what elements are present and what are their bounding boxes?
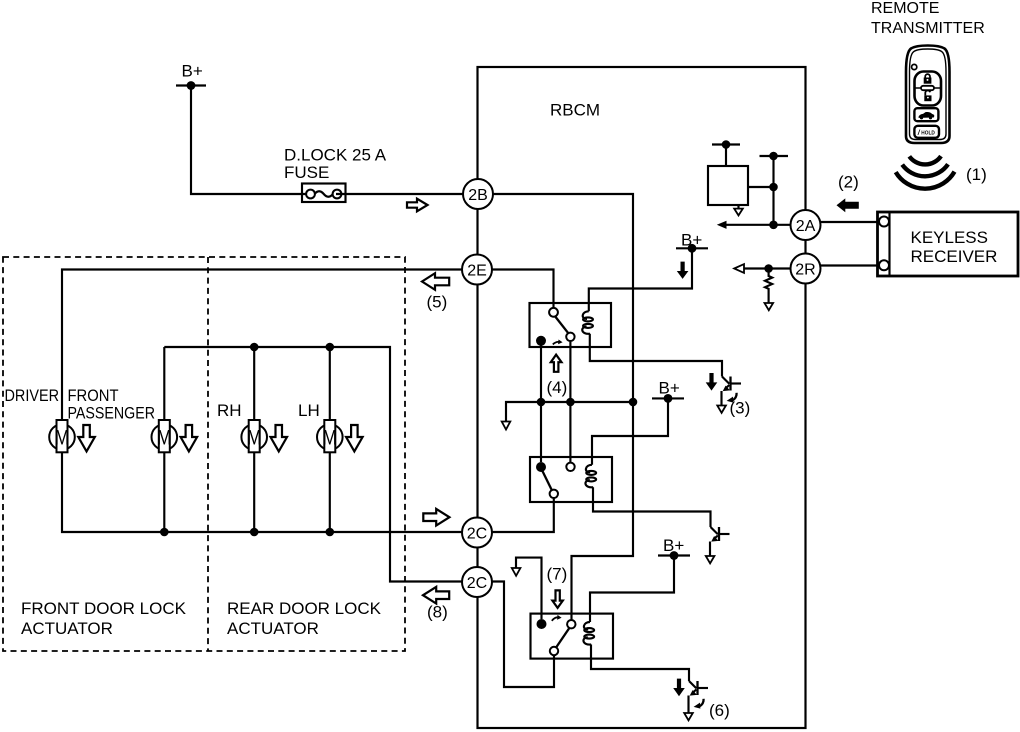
svg-text:M: M (247, 427, 262, 450)
connector 2C (lower) (462, 567, 492, 597)
wire B+ to coil K3 (590, 556, 674, 623)
node K1 common / ground bus (537, 398, 546, 407)
signal arrow down (Q3) (673, 679, 685, 697)
motor M front passenger (152, 420, 178, 452)
svg-text:(7): (7) (547, 565, 568, 584)
motor M RH (241, 420, 267, 452)
svg-text:(1): (1) (966, 165, 987, 184)
fuse D.LOCK 25 A (302, 184, 346, 203)
wire RH motor bottom (253, 452, 255, 532)
transistor Q1 (722, 377, 742, 406)
coil K3 (583, 622, 594, 645)
RBCM module box (478, 67, 806, 728)
svg-text:DRIVER: DRIVER (5, 386, 60, 405)
wire 2A input with arrow (717, 221, 791, 229)
ground (K3 common) (512, 568, 521, 576)
svg-text:RECEIVER: RECEIVER (911, 247, 998, 266)
node LH top (326, 343, 335, 352)
svg-text:LH: LH (298, 401, 320, 420)
wire power bar to IC box (725, 145, 727, 167)
fuse label D.LOCK 25 A FUSE (284, 146, 387, 183)
resistor (2R pull-down) (765, 269, 772, 304)
svg-text:HOLD: HOLD (921, 130, 935, 136)
arrow down (LH motor) (346, 425, 363, 451)
wire LH motor bottom (329, 452, 331, 532)
wire 2R input (744, 267, 791, 269)
signal arrow left (2) (837, 198, 859, 212)
IC box (receiver interface) (708, 166, 748, 205)
wire 2A to keyless receiver (821, 221, 880, 223)
front door lock actuator dashed box (3, 257, 405, 651)
connector 2B (463, 179, 493, 209)
wire coil K1 to transistor Q1 (590, 334, 722, 377)
label RBCM (550, 101, 600, 120)
transistor Q2 (710, 527, 730, 556)
svg-text:2R: 2R (795, 261, 815, 278)
svg-text:2A: 2A (796, 218, 816, 235)
power bar (2A pull-up) (760, 152, 789, 161)
svg-text:M: M (323, 427, 338, 450)
svg-text:FUSE: FUSE (284, 163, 329, 182)
curved arrow (Q3 base) (694, 699, 704, 709)
flow arrow left (5) (422, 273, 449, 290)
ground (bus) (502, 422, 511, 430)
wire relay K1 common down (540, 346, 542, 463)
ground (Q3) (684, 713, 693, 720)
label REAR DOOR LOCK ACTUATOR (227, 599, 382, 638)
wire motor bottom bus to 2C (62, 452, 462, 532)
flow arrow right (near 2B) (407, 199, 428, 212)
label (6) (709, 701, 730, 720)
label FRONT PASSENGER (68, 386, 156, 423)
flow arrow left (8) (423, 587, 449, 604)
remote transmitter key fob (906, 46, 950, 144)
ground (IC box) (734, 205, 743, 215)
signal arrow down (B+ K1) (677, 262, 689, 279)
relay K2 (530, 457, 612, 502)
connector 2C (upper) (462, 518, 492, 548)
node 2A line / pull-up (769, 221, 778, 230)
svg-text:(5): (5) (427, 293, 448, 312)
wire B+ feed to coil K1 (589, 248, 692, 311)
label FRONT DOOR LOCK ACTUATOR (21, 599, 187, 638)
ground (resistor) (765, 303, 774, 310)
label (1) (966, 165, 987, 184)
arrow down (RH motor) (271, 425, 288, 451)
wire relay K1 contact down (569, 341, 571, 463)
signal arrow down (Q1) (706, 373, 718, 391)
arrow down (driver motor) (78, 425, 95, 451)
connector 2A (791, 210, 821, 240)
label REMOTE TRANSMITTER (871, 0, 985, 37)
arrow down (front passenger motor) (181, 425, 198, 451)
power B+ (relay K1 coil) (676, 231, 708, 253)
wire 2B to relay K3 contact (493, 194, 633, 620)
transistor Q3 (689, 681, 709, 713)
motor M LH (317, 420, 343, 452)
svg-text:D.LOCK 25 A: D.LOCK 25 A (284, 146, 387, 165)
radio waves (transmitter signal) (896, 156, 955, 189)
wire fuse to 2B (336, 193, 463, 195)
relay K1 (530, 303, 612, 347)
arrowhead hollow (2R input) (734, 264, 744, 273)
svg-text:B+: B+ (182, 62, 203, 81)
coil K1 (582, 311, 593, 334)
wire coil K2 to transistor Q2 (593, 487, 711, 527)
svg-text:(8): (8) (427, 603, 448, 622)
node 2R / resistor (764, 264, 773, 273)
node IC box / pull-up (769, 183, 778, 192)
wire B+ to coil K2 (592, 398, 668, 464)
ground (Q1) (717, 406, 726, 413)
svg-text:PASSENGER: PASSENGER (68, 404, 156, 423)
svg-text:RBCM: RBCM (550, 101, 600, 120)
wire front passenger motor bottom (163, 452, 165, 532)
node front passenger bottom (160, 528, 169, 537)
svg-text:(2): (2) (838, 173, 859, 192)
label (2) (838, 173, 859, 192)
label RH (217, 401, 242, 420)
wire coil K3 to transistor Q3 (591, 645, 689, 682)
wire pull-up to 2A line (772, 156, 774, 225)
wire IC box to pull-up (748, 186, 774, 188)
label DRIVER (5, 386, 60, 405)
label LH (298, 401, 320, 420)
wire front passenger motor top (163, 347, 165, 420)
power B+ (relay K3 coil) (658, 536, 690, 560)
curved arrow (Q1 base) (727, 393, 737, 403)
svg-text:M: M (55, 427, 70, 450)
relay K3 (531, 614, 614, 659)
label (3) (730, 399, 751, 418)
svg-text:(3): (3) (730, 399, 751, 418)
label (5) (427, 293, 448, 312)
svg-text:TRANSMITTER: TRANSMITTER (871, 20, 985, 37)
connector 2E (462, 255, 492, 285)
wire 2E to relay K1 contact (492, 270, 554, 308)
ground bus wire (506, 402, 633, 422)
flow arrow down (7) (552, 590, 562, 608)
coil K2 (585, 465, 596, 488)
power B+ (relay K2 coil) (652, 379, 684, 403)
wire rear motors top bus to 2C lower (164, 347, 462, 582)
label (4) (547, 378, 568, 397)
svg-text:2B: 2B (468, 187, 488, 204)
wire 2C lower to relay K3 contact (492, 582, 554, 688)
node LH bottom (326, 528, 335, 537)
svg-text:ACTUATOR: ACTUATOR (227, 619, 319, 638)
svg-text:2E: 2E (467, 262, 487, 279)
wire 2E to driver motor (62, 270, 462, 421)
label (8) (427, 603, 448, 622)
node RH top (250, 343, 259, 352)
svg-text:KEYLESS: KEYLESS (911, 228, 989, 247)
svg-text:ACTUATOR: ACTUATOR (21, 619, 113, 638)
wire 2R to keyless receiver (821, 264, 880, 266)
svg-text:(4): (4) (547, 378, 568, 397)
wire relay K2 contact to 2C (492, 498, 554, 532)
svg-text:(6): (6) (709, 701, 730, 720)
power B+ (battery feed, top left) (176, 62, 206, 90)
flow arrow up (4) (551, 355, 562, 372)
motor M driver (49, 420, 75, 452)
svg-text:REAR DOOR LOCK: REAR DOOR LOCK (227, 599, 382, 618)
node RH bottom (250, 528, 259, 537)
connector 2R (791, 254, 821, 284)
flow arrow right (near 2C) (423, 509, 449, 526)
wire relay K3 common to ground (516, 558, 542, 619)
svg-text:REMOTE: REMOTE (871, 0, 939, 17)
keyless receiver box (878, 212, 1019, 276)
svg-text:2C: 2C (467, 525, 487, 542)
label (7) (547, 565, 568, 584)
node 2B line / ground bus (629, 398, 638, 407)
wire RH motor top (253, 347, 255, 420)
wire B+ to fuse (191, 86, 311, 195)
svg-text:2C: 2C (467, 575, 487, 592)
svg-text:FRONT DOOR LOCK: FRONT DOOR LOCK (21, 599, 187, 618)
ground (Q2) (706, 556, 715, 563)
wire LH motor top (329, 347, 331, 420)
svg-text:RH: RH (217, 401, 242, 420)
label KEYLESS RECEIVER (911, 228, 998, 266)
node K1 contact / ground bus (566, 398, 575, 407)
svg-text:FRONT: FRONT (68, 386, 119, 405)
power bar (IC box) (712, 140, 740, 149)
rear door lock actuator dashed divider (207, 257, 209, 651)
svg-text:M: M (157, 427, 172, 450)
